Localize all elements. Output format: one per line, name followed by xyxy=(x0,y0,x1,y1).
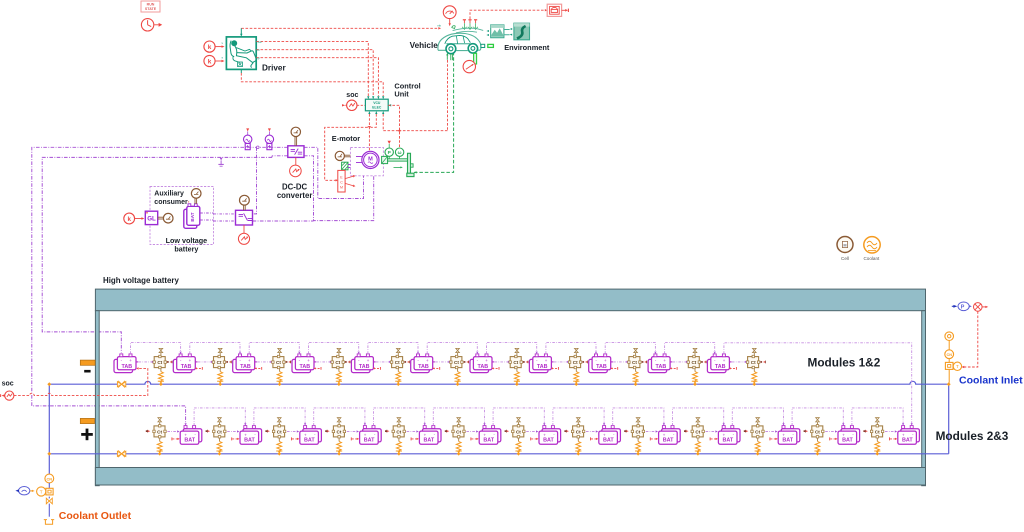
battery module BAT 13 (row 2) xyxy=(863,418,919,456)
svg-text:soc: soc xyxy=(346,92,358,99)
wire: TAB 9 to TAB 10 xyxy=(605,343,655,354)
junction dots xyxy=(47,382,51,386)
ground reference symbol xyxy=(218,158,223,167)
temp sensor (aux) xyxy=(158,213,173,223)
GL load block xyxy=(145,211,157,224)
wire: TAB 5 to TAB 6 xyxy=(368,343,418,354)
battery module TAB 9 (row 1) xyxy=(589,348,647,386)
svg-text:k: k xyxy=(208,58,212,65)
measurement stub TAB 10 xyxy=(670,367,677,369)
battery module BAT 10 (row 2) xyxy=(684,418,740,456)
battery module TAB 2 (row 1) xyxy=(173,348,231,386)
sensor above LV DC-DC xyxy=(240,195,250,210)
wire: TAB 4 to TAB 5 xyxy=(309,343,359,354)
svg-text:Vehicle: Vehicle xyxy=(410,41,439,50)
measurement stub TAB 6 xyxy=(433,367,440,369)
outlet valve xyxy=(46,497,52,517)
outlet measurement block xyxy=(37,487,54,496)
wire: BAT 11 to BAT 12 xyxy=(792,408,843,426)
battery module BAT 4 (row 2) xyxy=(325,418,381,456)
soc indicator at control unit xyxy=(342,100,365,110)
data logger block (red) xyxy=(547,4,568,16)
wire: TAB 2 to TAB 3 xyxy=(190,343,240,354)
battery module TAB 10 (row 1) xyxy=(648,348,706,386)
auxiliary consumer boundary box xyxy=(150,187,214,245)
drive shaft assembly xyxy=(382,153,414,176)
inlet CN junction xyxy=(945,350,954,363)
battery module BAT 12 (row 2) xyxy=(804,418,860,456)
battery module TAB 8 (row 1) xyxy=(529,348,587,386)
terminal plus xyxy=(80,418,94,423)
svg-text:High voltage battery: High voltage battery xyxy=(103,276,179,285)
wire: TAB 7 to TAB 8 xyxy=(487,343,537,354)
sensor above DC-DC xyxy=(291,127,300,146)
wire: soc tap from first module xyxy=(14,368,148,395)
Driver block xyxy=(226,37,256,70)
svg-text:Unit: Unit xyxy=(394,90,409,99)
temp sensor above LV battery xyxy=(191,189,201,204)
DC-DC converter block xyxy=(288,146,304,158)
battery housing right bar xyxy=(922,311,926,486)
svg-text:M: M xyxy=(844,243,847,247)
wire: BAT 6 to BAT 7 xyxy=(493,408,544,426)
wire: VCU to speed sensor xyxy=(383,114,399,131)
coolant pipe row 1 xyxy=(49,381,948,384)
svg-text:T: T xyxy=(40,489,43,494)
inlet measurement block xyxy=(945,362,961,383)
temperature sensor T (motor) xyxy=(335,151,350,160)
svg-text:C: C xyxy=(340,180,343,184)
wire: VCU to motor signal xyxy=(368,114,370,151)
svg-text:soc: soc xyxy=(2,380,14,387)
battery module TAB 4 (row 1) xyxy=(292,348,350,386)
battery module TAB 1 (row 1) xyxy=(114,348,172,386)
under-car connections xyxy=(446,53,452,60)
wire: BAT 9 to BAT 10 xyxy=(673,408,724,426)
LV DC-DC block xyxy=(236,210,253,225)
inverter ECM block xyxy=(338,170,356,192)
svg-text:VCU: VCU xyxy=(373,101,381,105)
wire: TAB 1 to TAB 2 xyxy=(131,343,181,354)
simulation clock source xyxy=(141,19,162,31)
svg-text:P: P xyxy=(961,305,965,311)
wire: BAT 4 to BAT 5 xyxy=(374,408,425,426)
wire: TAB 10 to TAB 11 xyxy=(665,343,715,354)
environment road block xyxy=(505,23,530,40)
svg-text:Coolant Outlet: Coolant Outlet xyxy=(59,510,132,522)
power sensor P xyxy=(385,141,393,159)
source k1 xyxy=(204,41,225,52)
battery module BAT 2 (row 2) xyxy=(206,418,262,456)
wire: driver bottom to control unit xyxy=(240,69,242,73)
measurement stub TAB 3 xyxy=(255,367,262,369)
svg-text:battery: battery xyxy=(174,245,198,254)
wire: DC-DC right lower to inverter xyxy=(304,156,374,221)
svg-text:CN: CN xyxy=(47,477,53,481)
RUN STATE block xyxy=(141,1,160,12)
wire: BAT 2 to BAT 3 xyxy=(254,408,305,426)
battery module TAB 6 (row 1) xyxy=(411,348,469,386)
pipe valve row 1 xyxy=(117,381,125,388)
ampere meter below DC-DC xyxy=(290,157,302,176)
legend coolant icon xyxy=(863,237,880,261)
svg-text:gr: gr xyxy=(258,56,261,60)
measurement stub TAB 7 xyxy=(492,367,499,369)
svg-text:RUN: RUN xyxy=(147,3,155,7)
svg-text:STATE: STATE xyxy=(145,7,157,11)
wire: TAB 6 to TAB 7 xyxy=(427,343,477,354)
battery module TAB 3 (row 1) xyxy=(233,348,291,386)
wire: VCU right to vehicle xyxy=(388,105,399,148)
svg-text:Auxiliary: Auxiliary xyxy=(154,191,184,198)
svg-text:E-motor: E-motor xyxy=(332,134,360,143)
outlet CN junction xyxy=(45,474,54,488)
outlet open end xyxy=(44,520,54,525)
battery module TAB 11 (row 1) xyxy=(707,348,765,386)
svg-text:consumer: consumer xyxy=(154,199,188,206)
wire: BAT 1 to BAT 2 xyxy=(194,408,245,426)
vehicle speed gauge xyxy=(443,6,456,29)
wire: rail into first BAT xyxy=(185,423,187,425)
battery module BAT 5 (row 2) xyxy=(385,418,441,456)
wire: VCU to inverter ECM xyxy=(371,114,376,127)
wire: shaft to vehicle (mechanical) xyxy=(414,54,454,173)
measurement stub TAB 4 xyxy=(314,367,321,369)
wire: TAB 8 to TAB 9 xyxy=(546,343,596,354)
wire: BAT 10 to BAT 11 xyxy=(732,408,783,426)
coolant pipe row 2 xyxy=(49,453,948,455)
wire: BAT 3 to BAT 4 xyxy=(314,408,365,426)
vehicle side ports xyxy=(481,44,485,47)
svg-text:Coolant Inlet: Coolant Inlet xyxy=(959,374,1023,386)
measurement stub TAB 11 xyxy=(730,367,737,369)
HV rail positive (upper) xyxy=(32,147,288,424)
measurement stub TAB 5 xyxy=(374,367,381,369)
environment mountain block xyxy=(486,25,504,38)
svg-text:M: M xyxy=(340,185,343,189)
slip gauge xyxy=(463,53,477,72)
battery housing top bar xyxy=(95,289,925,311)
source k2 xyxy=(204,55,225,66)
svg-text:ω: ω xyxy=(398,150,402,155)
motor mount (green) xyxy=(342,162,351,170)
measurement stub TAB 8 xyxy=(552,367,559,369)
wire: BAT 8 to BAT 9 xyxy=(613,408,664,426)
battery module BAT 9 (row 2) xyxy=(624,418,680,456)
road load T flags xyxy=(462,20,478,30)
svg-text:GL: GL xyxy=(147,216,156,223)
svg-text:T: T xyxy=(956,364,959,369)
aux wiring xyxy=(200,213,213,220)
battery module BAT 8 (row 2) xyxy=(564,418,620,456)
wire: BAT 12 to BAT 13 xyxy=(852,408,903,426)
wire: junction to LV converter xyxy=(253,147,257,214)
purple sensor S2 on DC rail xyxy=(265,128,273,149)
battery module BAT 1 (row 2) xyxy=(146,418,202,456)
e-motor boundary box xyxy=(350,148,383,176)
svg-text:v: v xyxy=(222,41,224,45)
svg-text:mb: mb xyxy=(437,23,441,27)
legend cell icon xyxy=(837,237,853,261)
speed sensor w xyxy=(395,148,403,159)
coolant pipe left drop xyxy=(48,384,50,474)
vehicle icon xyxy=(438,28,483,53)
svg-text:CN: CN xyxy=(946,353,952,357)
svg-text:Modules 2&3: Modules 2&3 xyxy=(936,429,1009,443)
svg-text:k: k xyxy=(208,44,212,51)
wire: BAT 5 to BAT 6 xyxy=(433,408,484,426)
wire: DC-DC right upper to inverter xyxy=(304,147,364,198)
HV rail negative (lower) xyxy=(42,156,288,353)
svg-text:Cell: Cell xyxy=(841,256,849,261)
coolant pump (inlet) xyxy=(952,302,972,311)
svg-text:Modules 1&2: Modules 1&2 xyxy=(808,355,881,369)
battery module TAB 7 (row 1) xyxy=(470,348,528,386)
coolant pipe right riser xyxy=(948,384,950,454)
svg-text:ELEC: ELEC xyxy=(372,106,382,110)
svg-text:Driver: Driver xyxy=(262,63,286,72)
outlet pump xyxy=(15,487,34,495)
wire: TAB 3 to TAB 4 xyxy=(249,343,299,354)
svg-text:Environment: Environment xyxy=(504,43,550,52)
measurement stub TAB 9 xyxy=(611,367,618,369)
ampere meter below LV DC-DC xyxy=(238,225,249,244)
wire: BAT 7 to BAT 8 xyxy=(553,408,604,426)
pipe valve row 2 xyxy=(117,450,125,457)
wire: feedback from vehicle to driver top xyxy=(241,27,438,29)
source k3 (aux) xyxy=(124,213,145,224)
wire: LV converter to rail xyxy=(253,220,314,222)
terminal minus xyxy=(80,360,95,365)
battery module BAT 6 (row 2) xyxy=(445,418,501,456)
inlet valve xyxy=(974,303,989,312)
battery module BAT 3 (row 2) xyxy=(265,418,321,456)
svg-text:k: k xyxy=(127,216,131,223)
measurement stub TAB 2 xyxy=(196,367,203,369)
battery housing left bar xyxy=(95,311,99,486)
svg-text:soc: soc xyxy=(258,40,263,44)
LV battery block xyxy=(184,204,200,229)
wire: last TAB to last BAT (series link) xyxy=(724,343,912,424)
wire: valve control xyxy=(963,311,978,367)
svg-text:Coolant: Coolant xyxy=(863,256,880,261)
svg-text:converter: converter xyxy=(277,191,313,200)
inlet boundary port xyxy=(945,332,954,350)
wire: flags to data block xyxy=(470,10,545,19)
svg-text:s: s xyxy=(222,56,224,60)
battery module BAT 7 (row 2) xyxy=(505,418,561,456)
battery module TAB 5 (row 1) xyxy=(351,348,409,386)
battery module BAT 11 (row 2) xyxy=(744,418,800,456)
VCU ELEC block xyxy=(365,96,391,114)
wires: driver outputs to control unit xyxy=(256,42,368,96)
motor M xyxy=(356,151,379,168)
soc output port xyxy=(1,391,14,400)
svg-text:BAT: BAT xyxy=(190,212,195,221)
purple sensor S1 on DC rail xyxy=(244,128,252,149)
svg-text:br: br xyxy=(258,48,261,52)
battery housing bottom bar xyxy=(95,468,925,486)
